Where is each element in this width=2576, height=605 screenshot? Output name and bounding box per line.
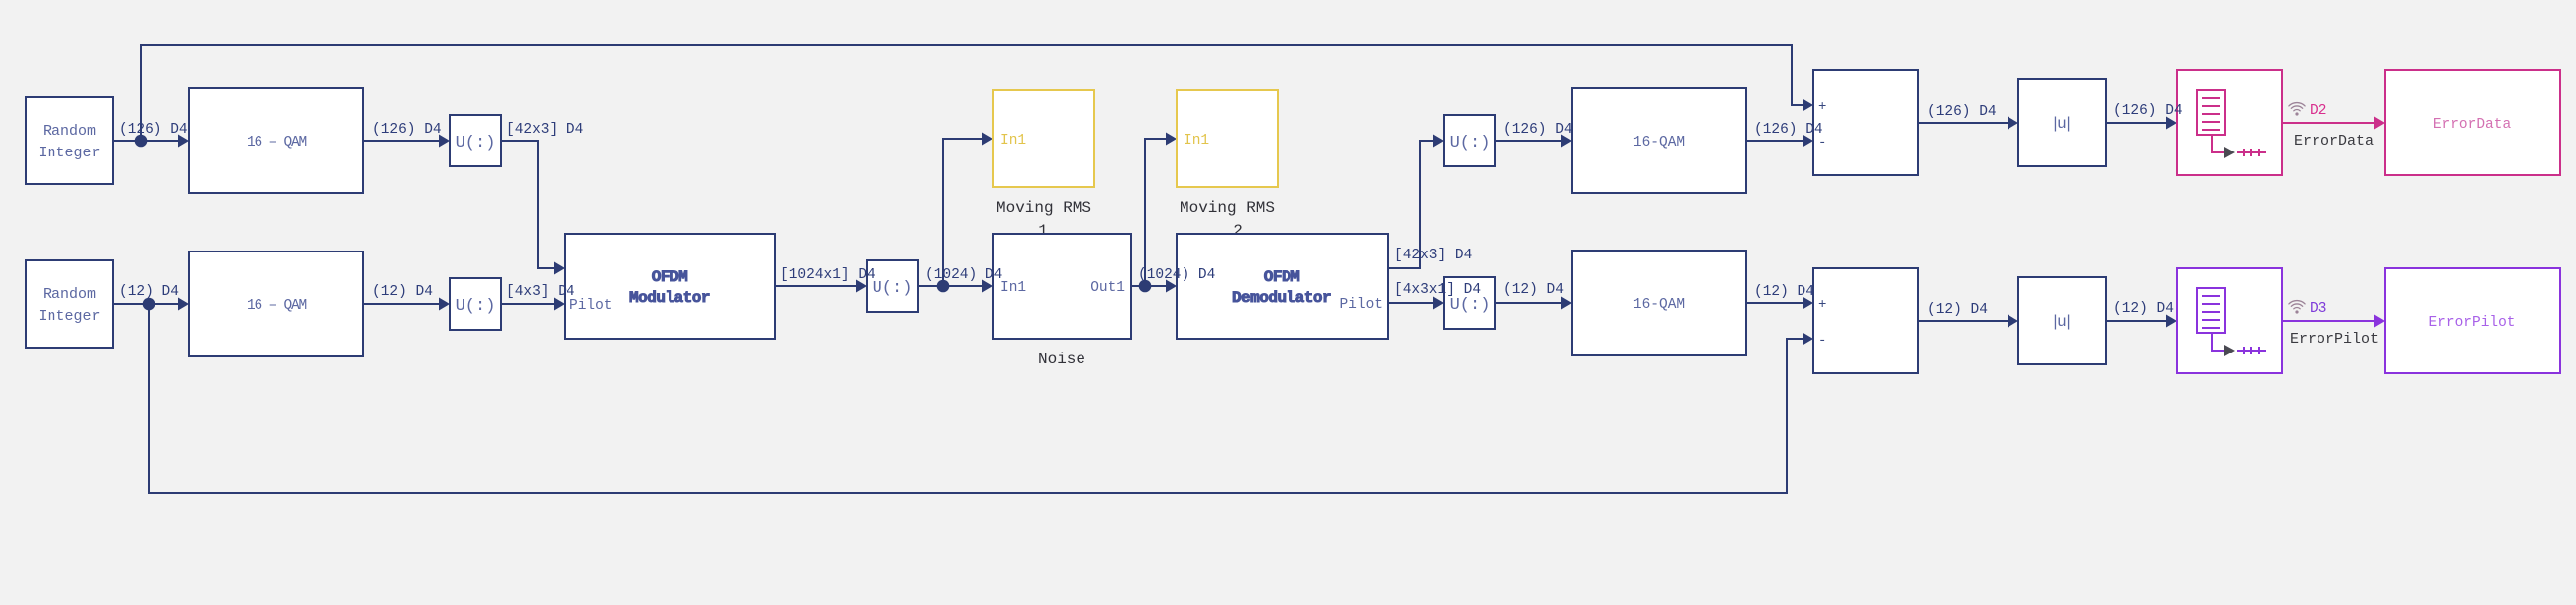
svg-text:(12) D4: (12) D4 (2113, 301, 2174, 317)
block Record2 (purple record/scope block) (2177, 268, 2282, 373)
svg-text:D3: D3 (2310, 301, 2326, 317)
svg-text:U(:): U(:) (1450, 134, 1491, 152)
svg-text:16 – QAM: 16 – QAM (247, 135, 307, 151)
block 16-QAM1 modulator (189, 88, 363, 193)
svg-text:-: - (1818, 333, 1826, 349)
wire |u|1 to Record1 (2106, 122, 2170, 124)
svg-text:[42x3] D4: [42x3] D4 (1394, 248, 1472, 263)
svg-text:[4x3x1] D4: [4x3x1] D4 (1394, 282, 1481, 298)
svg-text:In1: In1 (1000, 280, 1026, 296)
wire OFDM Demodulator out1 to U(:)4 (1388, 141, 1437, 268)
wire U(:)4 to 16-QAM3 (1495, 140, 1565, 142)
svg-text:Out1: Out1 (1090, 280, 1125, 296)
svg-text:16 – QAM: 16 – QAM (247, 298, 307, 314)
svg-text:|u|: |u| (2053, 115, 2070, 132)
wire U(:)3 to Noise In1 (918, 285, 986, 287)
svg-text:OFDM: OFDM (652, 268, 687, 286)
wire RandomInteger1 to 16-QAM1 (113, 140, 182, 142)
svg-text:U(:): U(:) (1450, 296, 1491, 315)
wire OFDM Demodulator Pilot out to U(:)5 (1388, 302, 1437, 304)
block Abs1 |u| (2018, 79, 2106, 166)
svg-text:[1024x1] D4: [1024x1] D4 (780, 267, 876, 283)
block OFDM Demodulator subsystem (1177, 234, 1388, 339)
svg-text:Moving RMS: Moving RMS (1180, 199, 1275, 217)
svg-text:(126) D4: (126) D4 (1754, 122, 1823, 138)
block Moving RMS 2 (yellow) (1177, 90, 1278, 187)
block U(:)3 reshape (867, 260, 918, 312)
svg-text:(12) D4: (12) D4 (119, 284, 179, 300)
block ErrorData display (2385, 70, 2560, 175)
svg-text:16-QAM: 16-QAM (1633, 135, 1685, 151)
wire OFDM Modulator to U(:)3 (775, 285, 860, 287)
block Sum2 subtract (1813, 268, 1918, 373)
svg-text:(126) D4: (126) D4 (372, 122, 442, 138)
wire |u|2 to Record2 (2106, 320, 2170, 322)
svg-text:+: + (1818, 99, 1826, 115)
block RandomInteger2 source (26, 260, 113, 348)
svg-text:Noise: Noise (1038, 351, 1085, 368)
svg-text:In1: In1 (1184, 133, 1209, 149)
svg-text:|u|: |u| (2053, 313, 2070, 330)
junction node after Noise (1139, 280, 1152, 293)
wire 16-QAM1 to U(:)1 (363, 140, 443, 142)
junction node after RandomInteger2 (143, 298, 155, 311)
svg-text:(1024) D4: (1024) D4 (1138, 267, 1215, 283)
svg-text:(126) D4: (126) D4 (1927, 104, 1997, 120)
wire 16-QAM2 to U(:)2 (363, 303, 443, 305)
wire U(:)2 to OFDM Modulator Pilot input (501, 303, 558, 305)
wire 16-QAM3 to Sum1 - input (1746, 140, 1806, 142)
svg-text:D2: D2 (2310, 103, 2326, 119)
junction node after U(:)3 (937, 280, 950, 293)
svg-text:U(:): U(:) (873, 279, 913, 298)
svg-text:(126) D4: (126) D4 (2113, 103, 2183, 119)
svg-text:ErrorData: ErrorData (2433, 117, 2512, 133)
wire branch up to Moving RMS 1 In1 (943, 139, 986, 286)
svg-text:Integer: Integer (38, 308, 100, 325)
svg-text:(12) D4: (12) D4 (372, 284, 433, 300)
svg-text:U(:): U(:) (456, 134, 496, 152)
svg-text:(1024) D4: (1024) D4 (925, 267, 1002, 283)
block U(:)2 reshape (450, 278, 501, 330)
block 16-QAM3 demodulator (1572, 88, 1746, 193)
wire RandomInteger2 to 16-QAM2 (113, 303, 182, 305)
wire feedback bottom: junction down, across, up into Sum2 - input (149, 304, 1806, 493)
svg-text:Moving RMS: Moving RMS (996, 199, 1091, 217)
svg-text:Pilot: Pilot (569, 298, 613, 314)
wire Sum2 to |u|2 (1918, 320, 2011, 322)
wire U(:)5 to 16-QAM4 (1495, 302, 1565, 304)
svg-text:(12) D4: (12) D4 (1754, 284, 1814, 300)
svg-text:Random: Random (43, 123, 96, 140)
wire 16-QAM4 to Sum2 + input (1746, 302, 1806, 304)
junction node after RandomInteger1 (135, 135, 148, 148)
block 16-QAM2 modulator (189, 252, 363, 356)
block U(:)4 reshape (1444, 115, 1495, 166)
block OFDM Modulator subsystem (565, 234, 775, 339)
block U(:)1 reshape (450, 115, 501, 166)
block Noise subsystem (993, 234, 1131, 339)
block Abs2 |u| (2018, 277, 2106, 364)
wifi logging icon for D2 (2289, 103, 2305, 111)
svg-text:ErrorData: ErrorData (2294, 133, 2374, 150)
wire Record2 to ErrorPilot (logged, purple) (2282, 320, 2378, 322)
svg-text:(126) D4: (126) D4 (119, 122, 188, 138)
svg-text:(126) D4: (126) D4 (1503, 122, 1573, 138)
block Record1 (pink record/scope block) (2177, 70, 2282, 175)
svg-text:[4x3] D4: [4x3] D4 (506, 284, 575, 300)
block Sum1 subtract (1813, 70, 1918, 175)
block ErrorPilot display (2385, 268, 2560, 373)
svg-text:Modulator: Modulator (629, 289, 710, 307)
wire branch up to Moving RMS 2 In1 (1145, 139, 1170, 286)
wire Record1 to ErrorData (logged, pink) (2282, 122, 2378, 124)
wire Sum1 to |u|1 (1918, 122, 2011, 124)
svg-text:16-QAM: 16-QAM (1633, 297, 1685, 313)
svg-text:ErrorPilot: ErrorPilot (2290, 331, 2379, 348)
svg-text:ErrorPilot: ErrorPilot (2428, 315, 2515, 331)
wire U(:)1 to OFDM Modulator in1 (501, 141, 558, 268)
svg-text:Random: Random (43, 286, 96, 303)
svg-text:[42x3] D4: [42x3] D4 (506, 122, 583, 138)
wifi logging icon for D3 (2289, 301, 2305, 309)
svg-text:OFDM: OFDM (1264, 268, 1299, 286)
block U(:)5 reshape (1444, 277, 1495, 329)
wire Noise Out1 to OFDM Demodulator In1 (1131, 285, 1170, 287)
svg-text:Demodulator: Demodulator (1232, 289, 1331, 307)
svg-text:Integer: Integer (38, 145, 100, 161)
svg-text:+: + (1818, 297, 1826, 313)
wire feedback top: junction up, across, down into Sum1 + input (141, 45, 1806, 141)
svg-text:(12) D4: (12) D4 (1503, 282, 1564, 298)
svg-text:In1: In1 (1000, 133, 1026, 149)
svg-text:Pilot: Pilot (1339, 297, 1383, 313)
block RandomInteger1 source (26, 97, 113, 184)
svg-text:(12) D4: (12) D4 (1927, 302, 1988, 318)
svg-text:U(:): U(:) (456, 297, 496, 316)
block Moving RMS 1 (yellow) (993, 90, 1094, 187)
block 16-QAM4 demodulator (1572, 251, 1746, 355)
